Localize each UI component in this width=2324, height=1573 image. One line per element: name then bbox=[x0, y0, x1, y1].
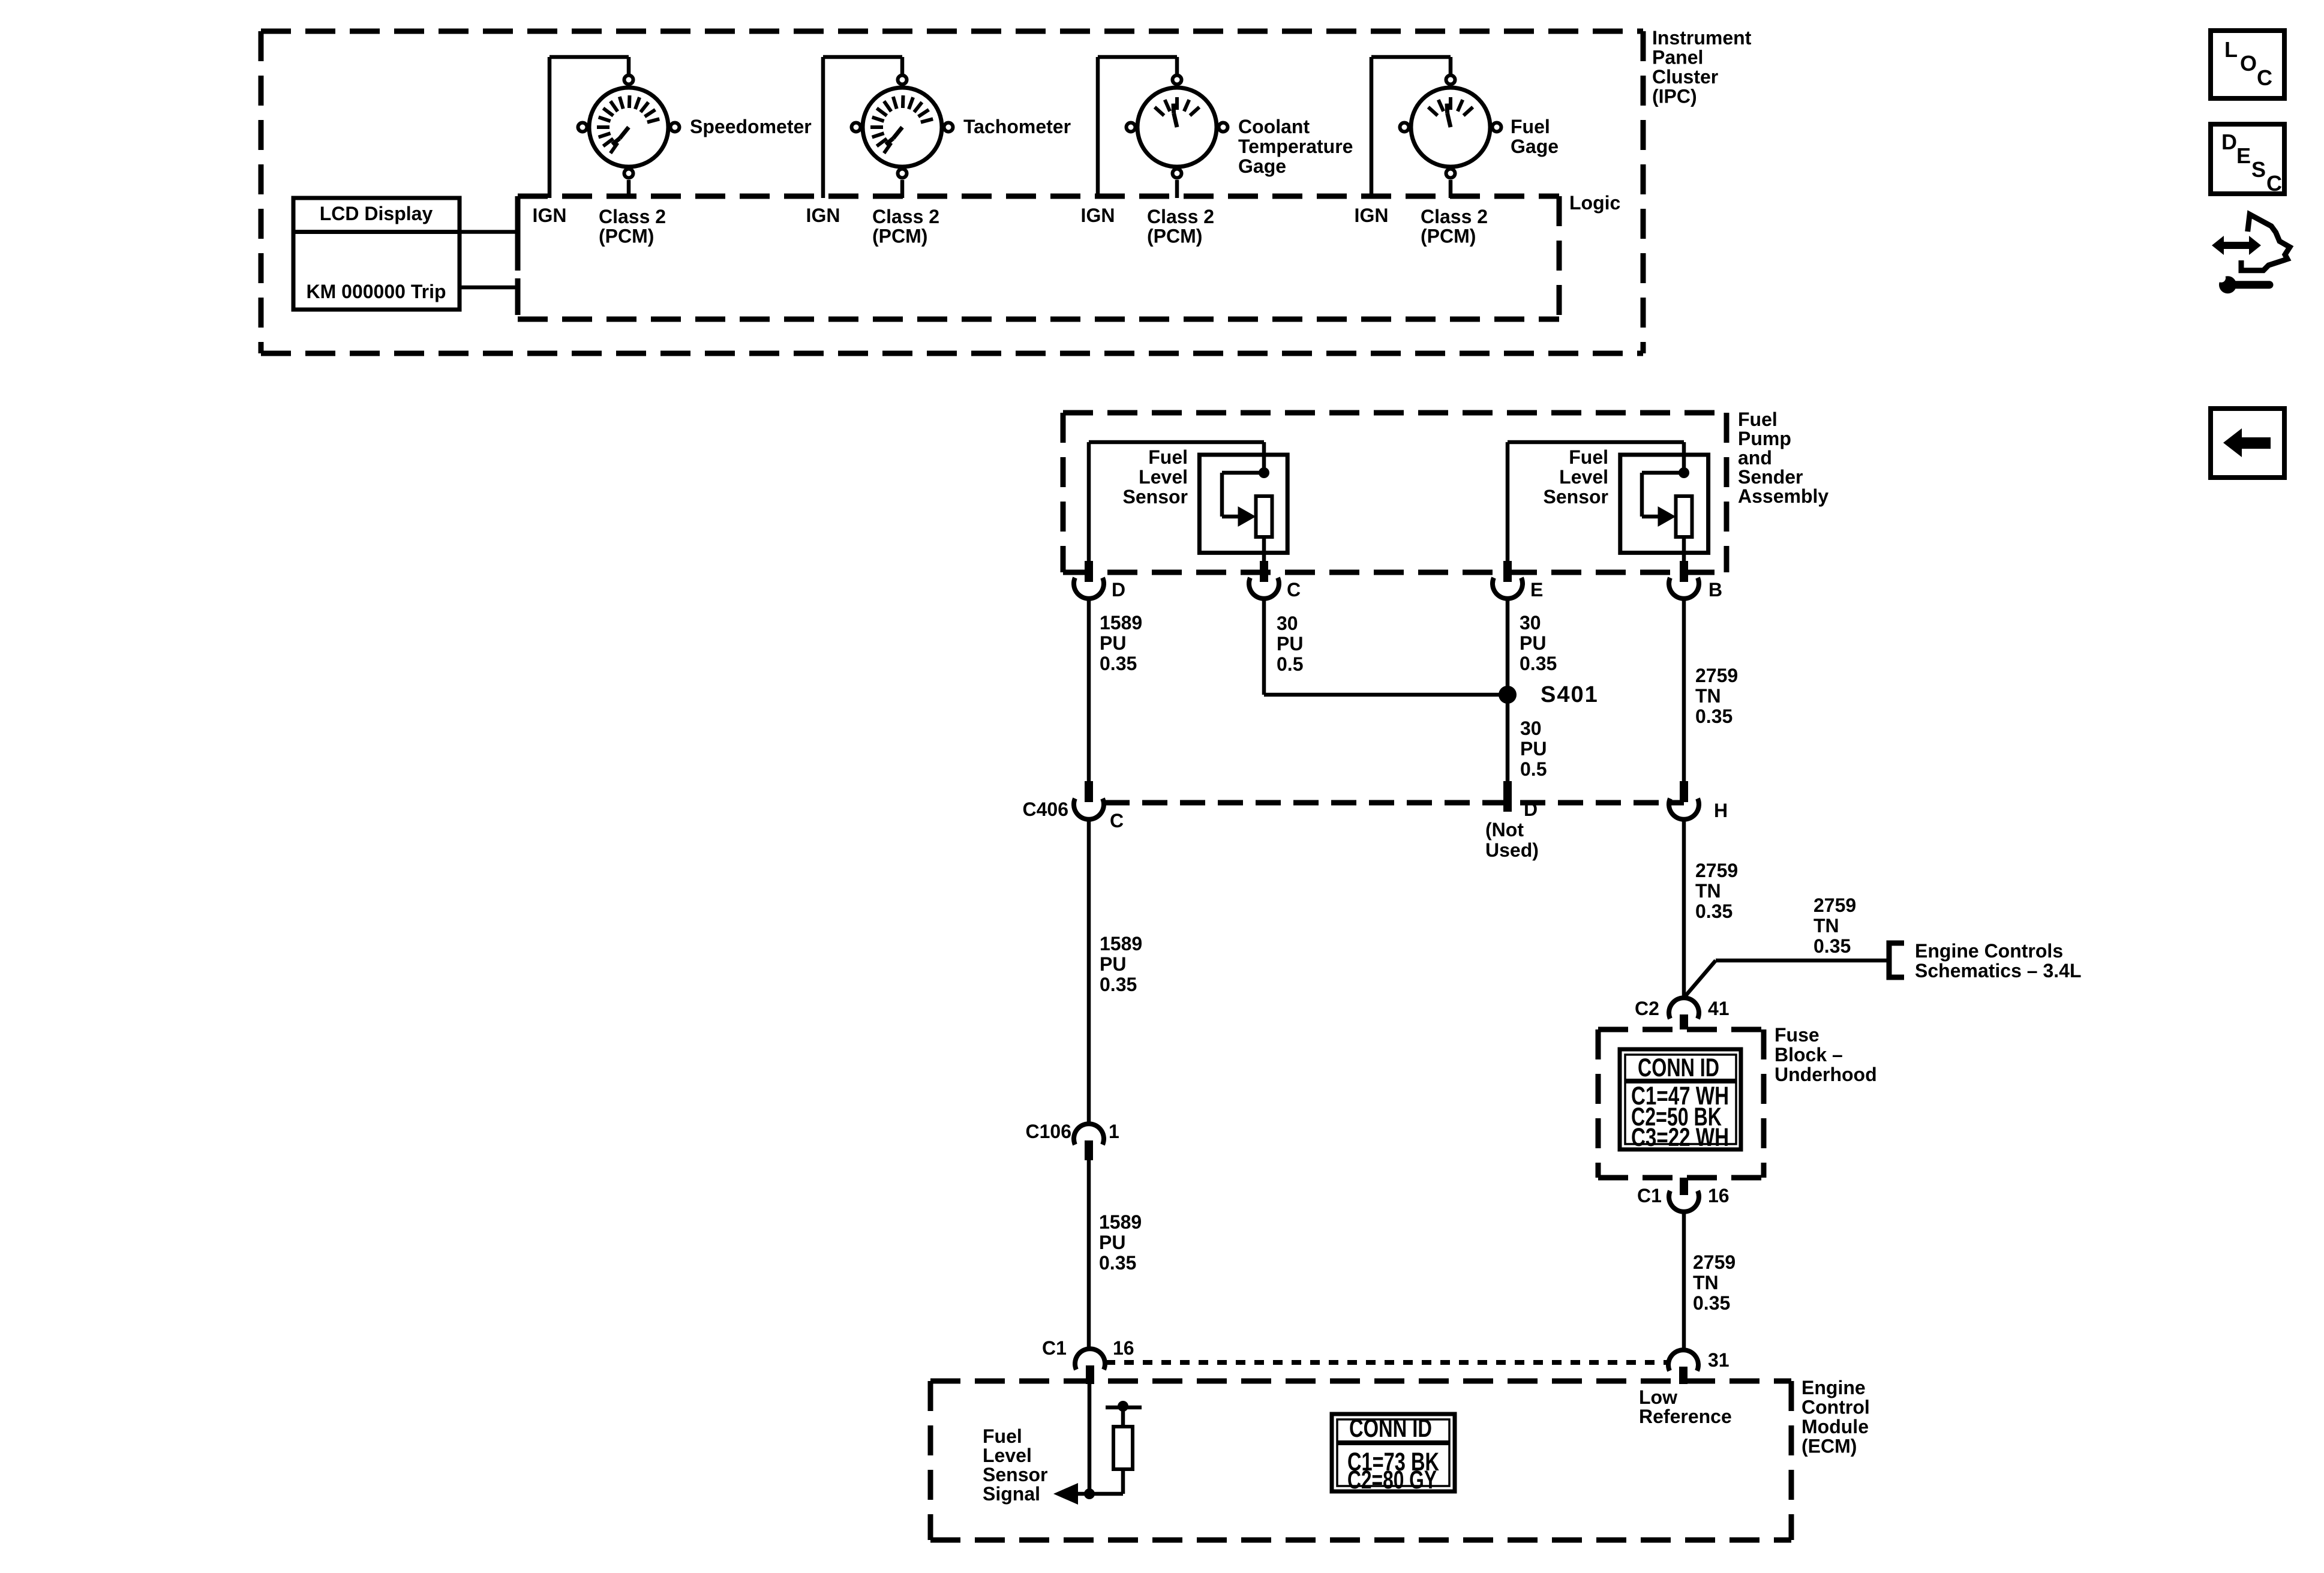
svg-text:IGN: IGN bbox=[533, 205, 567, 226]
svg-text:Level: Level bbox=[1559, 466, 1608, 488]
wire pin D up-over to sensor bbox=[1087, 442, 1091, 574]
svg-text:D: D bbox=[1112, 579, 1125, 601]
wire B down to H bbox=[1682, 596, 1686, 781]
LCD display box bbox=[293, 198, 460, 310]
branch end bracket bbox=[1889, 943, 1904, 977]
svg-text:C3=22 WH: C3=22 WH bbox=[1631, 1123, 1729, 1152]
svg-text:Sensor: Sensor bbox=[983, 1464, 1047, 1485]
svg-text:D: D bbox=[2221, 130, 2237, 154]
fuel pump and sender assembly dashed box bbox=[1063, 410, 1727, 416]
ECM CONN ID divider bbox=[1337, 1440, 1449, 1445]
svg-text:2759: 2759 bbox=[1693, 1251, 1736, 1273]
svg-text:41: 41 bbox=[1708, 998, 1730, 1019]
svg-text:16: 16 bbox=[1113, 1337, 1134, 1359]
svg-text:1589: 1589 bbox=[1099, 1211, 1142, 1233]
LCD display divider bbox=[293, 230, 460, 234]
branch wire to engine controls bbox=[1684, 960, 1716, 998]
svg-text:Block –: Block – bbox=[1774, 1044, 1843, 1065]
svg-text:O: O bbox=[2240, 51, 2257, 76]
svg-text:0.35: 0.35 bbox=[1695, 706, 1733, 727]
svg-text:0.35: 0.35 bbox=[1099, 1252, 1136, 1274]
connector C2 cap bbox=[1669, 998, 1699, 1019]
svg-text:Reference: Reference bbox=[1639, 1406, 1732, 1427]
svg-text:30: 30 bbox=[1520, 612, 1541, 634]
junction dot (right sensor) bbox=[1679, 467, 1689, 478]
svg-text:PU: PU bbox=[1099, 1232, 1125, 1253]
wire IGN feed 2 bbox=[821, 57, 825, 198]
svg-text:Logic: Logic bbox=[1569, 192, 1620, 214]
svg-text:30: 30 bbox=[1520, 718, 1542, 739]
svg-text:2759: 2759 bbox=[1695, 665, 1738, 686]
connector pin D stub bbox=[1085, 561, 1093, 582]
fuel level sensor box (left) bbox=[1199, 455, 1287, 553]
svg-text:Panel: Panel bbox=[1652, 47, 1703, 68]
diagnostic icon outline bbox=[2241, 214, 2290, 270]
svg-text:Fuel: Fuel bbox=[1738, 409, 1777, 430]
connector pin B stub bbox=[1680, 561, 1688, 582]
svg-text:Coolant: Coolant bbox=[1238, 116, 1310, 137]
ECM pullup rail bbox=[1106, 1406, 1142, 1410]
svg-text:and: and bbox=[1738, 447, 1772, 469]
svg-text:PU: PU bbox=[1277, 633, 1303, 655]
connector C406 cup bbox=[1074, 798, 1104, 819]
svg-text:(PCM): (PCM) bbox=[1147, 226, 1202, 247]
svg-text:31: 31 bbox=[1708, 1349, 1730, 1371]
svg-text:1589: 1589 bbox=[1100, 933, 1142, 954]
svg-text:0.5: 0.5 bbox=[1520, 758, 1547, 780]
DESC icon box bbox=[2211, 124, 2284, 194]
connector pin C cup bbox=[1249, 578, 1279, 599]
connector ECM C1 stub bbox=[1086, 1365, 1094, 1384]
svg-text:Gage: Gage bbox=[1511, 136, 1559, 157]
svg-text:Gage: Gage bbox=[1238, 155, 1286, 177]
svg-text:0.35: 0.35 bbox=[1100, 974, 1137, 995]
svg-text:Control: Control bbox=[1801, 1397, 1870, 1418]
junction dot (left sensor) bbox=[1259, 467, 1269, 478]
svg-text:2759: 2759 bbox=[1695, 860, 1738, 881]
LOC icon box bbox=[2211, 31, 2284, 98]
svg-text:TN: TN bbox=[1813, 915, 1839, 936]
svg-text:TN: TN bbox=[1695, 685, 1721, 707]
svg-text:Underhood: Underhood bbox=[1774, 1064, 1877, 1085]
connector fuse C1 stub bbox=[1680, 1178, 1688, 1195]
svg-text:Class 2: Class 2 bbox=[1147, 206, 1214, 227]
wire C106 to ECM C1 bbox=[1087, 1160, 1091, 1350]
svg-text:Fuel: Fuel bbox=[1569, 446, 1608, 468]
svg-text:(Not: (Not bbox=[1485, 819, 1524, 840]
wire gauge 4 to logic bbox=[1449, 180, 1453, 198]
svg-text:0.35: 0.35 bbox=[1813, 935, 1851, 957]
wire gauge 1 to logic bbox=[627, 180, 631, 198]
svg-text:IGN: IGN bbox=[1081, 205, 1115, 226]
gauge Fuel Gage bbox=[1411, 88, 1490, 167]
svg-text:2759: 2759 bbox=[1813, 894, 1856, 916]
ECM pullup wire lower bbox=[1121, 1469, 1125, 1494]
svg-text:0.35: 0.35 bbox=[1100, 653, 1137, 674]
connector C406 stub bbox=[1085, 781, 1093, 802]
svg-text:Class 2: Class 2 bbox=[872, 206, 939, 227]
svg-text:L: L bbox=[2224, 37, 2238, 62]
svg-text:C2=80 GY: C2=80 GY bbox=[1347, 1466, 1437, 1494]
junction dot ECM bbox=[1084, 1488, 1095, 1499]
svg-text:Low: Low bbox=[1639, 1386, 1677, 1408]
svg-text:Module: Module bbox=[1801, 1416, 1869, 1437]
svg-text:S401: S401 bbox=[1541, 682, 1599, 707]
connector C106 stub bbox=[1085, 1140, 1093, 1160]
svg-text:C: C bbox=[2257, 65, 2272, 90]
engine control module dashed box bbox=[930, 1379, 1791, 1384]
svg-text:(PCM): (PCM) bbox=[1421, 226, 1476, 247]
svg-text:LCD Display: LCD Display bbox=[320, 203, 433, 224]
svg-text:C: C bbox=[1287, 579, 1301, 601]
ECM CONN ID table outer bbox=[1332, 1414, 1455, 1491]
wire gauge 3 to logic bbox=[1175, 180, 1179, 198]
wire LCD to logic 1 bbox=[460, 230, 520, 234]
ECM pullup dot bbox=[1118, 1401, 1128, 1412]
svg-text:(PCM): (PCM) bbox=[872, 226, 927, 247]
connector ECM 31 stub bbox=[1679, 1367, 1688, 1384]
svg-text:Cluster: Cluster bbox=[1652, 66, 1718, 88]
wire C to S401 horizontal bbox=[1264, 693, 1508, 697]
svg-text:Level: Level bbox=[1139, 466, 1188, 488]
tick at LCD wire 1 on logic box edge bbox=[515, 223, 521, 241]
svg-text:PU: PU bbox=[1100, 953, 1126, 975]
svg-text:C2: C2 bbox=[1635, 998, 1659, 1019]
wire C406 to C106 bbox=[1087, 817, 1091, 1126]
wire gauge 2 to logic bbox=[900, 180, 905, 198]
fuse block CONN ID table inner bbox=[1625, 1055, 1736, 1144]
connector ECM 31 cap bbox=[1668, 1350, 1698, 1371]
svg-text:Assembly: Assembly bbox=[1738, 485, 1828, 507]
logic dashed box bbox=[518, 194, 1559, 199]
svg-text:0.35: 0.35 bbox=[1520, 653, 1557, 674]
svg-text:Fuel: Fuel bbox=[1148, 446, 1188, 468]
svg-text:(ECM): (ECM) bbox=[1801, 1436, 1857, 1457]
wire pin E up-over to sensor bbox=[1506, 442, 1510, 574]
wire IGN feed 3 bbox=[1096, 57, 1100, 198]
svg-text:Engine Controls: Engine Controls bbox=[1915, 940, 2063, 962]
wiper arrowhead (left sensor) bbox=[1238, 506, 1256, 527]
wiper arm (left sensor) bbox=[1222, 471, 1264, 475]
instrument panel cluster (IPC) dashed box bbox=[261, 29, 1643, 34]
svg-text:TN: TN bbox=[1693, 1272, 1719, 1293]
signal arrowhead bbox=[1053, 1483, 1078, 1505]
svg-text:S: S bbox=[2251, 157, 2266, 182]
ECM pullup resistor bbox=[1113, 1427, 1133, 1469]
tick at LCD wire 2 on logic box edge bbox=[515, 278, 521, 297]
svg-text:Sensor: Sensor bbox=[1123, 486, 1188, 508]
fuse block dashed box bbox=[1598, 1027, 1764, 1032]
svg-text:KM 000000 Trip: KM 000000 Trip bbox=[307, 281, 446, 302]
diagnostic icon wrench bbox=[2219, 276, 2236, 293]
connector pin E cup bbox=[1493, 578, 1523, 599]
ECM interface dotted line bbox=[1106, 1360, 1669, 1365]
svg-text:D: D bbox=[1524, 798, 1538, 820]
svg-text:0.35: 0.35 bbox=[1695, 900, 1733, 922]
svg-text:PU: PU bbox=[1520, 738, 1547, 760]
svg-text:Tachometer: Tachometer bbox=[963, 116, 1071, 137]
fuse block CONN ID table outer bbox=[1620, 1049, 1741, 1149]
wire resistor to pin C bbox=[1262, 537, 1266, 574]
connector fuse C1 cup bbox=[1669, 1191, 1699, 1212]
ECM CONN ID table inner bbox=[1337, 1419, 1449, 1486]
connector pin D cup bbox=[1074, 578, 1104, 599]
svg-text:C: C bbox=[1110, 810, 1124, 831]
svg-text:Sensor: Sensor bbox=[1544, 486, 1608, 508]
svg-text:(PCM): (PCM) bbox=[599, 226, 654, 247]
wire IGN feed 1 bbox=[548, 57, 552, 198]
svg-text:Level: Level bbox=[983, 1445, 1032, 1466]
svg-text:0.5: 0.5 bbox=[1277, 653, 1303, 675]
wire H to C2 bbox=[1682, 817, 1686, 999]
ECM pullup wire upper bbox=[1121, 1407, 1125, 1427]
svg-text:IGN: IGN bbox=[1355, 205, 1389, 226]
back arrow icon box bbox=[2211, 409, 2284, 478]
resistor (left sensor) bbox=[1256, 496, 1272, 537]
gauge Coolant Temperature Gage bbox=[1137, 88, 1217, 167]
svg-text:16: 16 bbox=[1708, 1185, 1730, 1206]
svg-text:CONN ID: CONN ID bbox=[1638, 1053, 1719, 1082]
wire fuse C1 to ECM 31 bbox=[1682, 1211, 1686, 1351]
svg-text:E: E bbox=[1530, 579, 1543, 601]
connector pin B cup bbox=[1669, 578, 1699, 599]
svg-text:B: B bbox=[1709, 579, 1722, 601]
wire E down through S401 bbox=[1506, 596, 1510, 781]
svg-text:H: H bbox=[1714, 800, 1728, 821]
svg-text:Pump: Pump bbox=[1738, 428, 1791, 449]
svg-text:(IPC): (IPC) bbox=[1652, 86, 1697, 107]
splice S401 bbox=[1499, 686, 1517, 704]
svg-text:Fuse: Fuse bbox=[1774, 1024, 1819, 1046]
svg-text:C: C bbox=[2266, 171, 2282, 196]
svg-text:C406: C406 bbox=[1023, 798, 1069, 820]
connector C106 cap bbox=[1074, 1124, 1104, 1145]
wiper arrowhead (right sensor) bbox=[1658, 506, 1676, 527]
gauge Tachometer bbox=[863, 88, 942, 167]
wire resistor to pin B bbox=[1682, 537, 1686, 574]
svg-text:C1: C1 bbox=[1637, 1185, 1662, 1206]
svg-text:1: 1 bbox=[1109, 1121, 1119, 1142]
connector H cup bbox=[1669, 798, 1699, 819]
wire ECM signal horizontal bbox=[1063, 1492, 1123, 1496]
fuse block CONN ID divider bbox=[1625, 1079, 1736, 1083]
svg-text:Used): Used) bbox=[1485, 839, 1539, 861]
svg-text:Engine: Engine bbox=[1801, 1377, 1866, 1398]
svg-text:30: 30 bbox=[1277, 613, 1298, 634]
svg-text:E: E bbox=[2236, 143, 2251, 168]
diagnostic icon double arrow bbox=[2223, 242, 2251, 249]
connector pin C stub bbox=[1260, 561, 1268, 582]
svg-text:Instrument: Instrument bbox=[1652, 27, 1752, 49]
wire LCD to logic 2 bbox=[460, 286, 520, 290]
svg-text:Fuel: Fuel bbox=[1511, 116, 1550, 137]
svg-text:C106: C106 bbox=[1026, 1121, 1072, 1142]
connector C2 stub bbox=[1680, 1014, 1688, 1029]
back arrow icon bbox=[2223, 428, 2242, 457]
svg-text:Fuel: Fuel bbox=[983, 1425, 1022, 1447]
svg-text:CONN ID: CONN ID bbox=[1349, 1414, 1432, 1443]
svg-text:TN: TN bbox=[1695, 880, 1721, 902]
connector pin E stub bbox=[1503, 561, 1512, 582]
svg-text:Schematics – 3.4L: Schematics – 3.4L bbox=[1915, 960, 2081, 981]
svg-text:PU: PU bbox=[1520, 632, 1546, 654]
svg-text:Signal: Signal bbox=[983, 1483, 1040, 1505]
wiper arm (right sensor) bbox=[1642, 471, 1684, 475]
inline harness dashed line C406-H bbox=[1104, 800, 1684, 806]
svg-text:PU: PU bbox=[1100, 632, 1126, 654]
resistor (right sensor) bbox=[1676, 496, 1692, 537]
svg-text:C1: C1 bbox=[1042, 1337, 1067, 1359]
connector H stub bbox=[1680, 781, 1688, 802]
wire D to C406 bbox=[1087, 598, 1091, 781]
svg-text:0.35: 0.35 bbox=[1693, 1292, 1730, 1314]
svg-text:Class 2: Class 2 bbox=[599, 206, 666, 227]
wire IGN feed 4 bbox=[1370, 57, 1374, 198]
svg-text:Class 2: Class 2 bbox=[1421, 206, 1488, 227]
terminal D not used stub bbox=[1503, 781, 1512, 812]
svg-text:Sender: Sender bbox=[1738, 466, 1803, 488]
wire ECM signal down bbox=[1088, 1384, 1092, 1494]
svg-text:1589: 1589 bbox=[1100, 612, 1142, 634]
fuel level sensor box (right) bbox=[1620, 455, 1709, 553]
svg-text:Speedometer: Speedometer bbox=[690, 116, 812, 137]
svg-text:Temperature: Temperature bbox=[1238, 136, 1353, 157]
svg-text:IGN: IGN bbox=[806, 205, 840, 226]
connector ECM C1 cap bbox=[1075, 1349, 1105, 1370]
gauge Speedometer bbox=[589, 88, 668, 167]
wire C down to splice bbox=[1262, 596, 1266, 695]
